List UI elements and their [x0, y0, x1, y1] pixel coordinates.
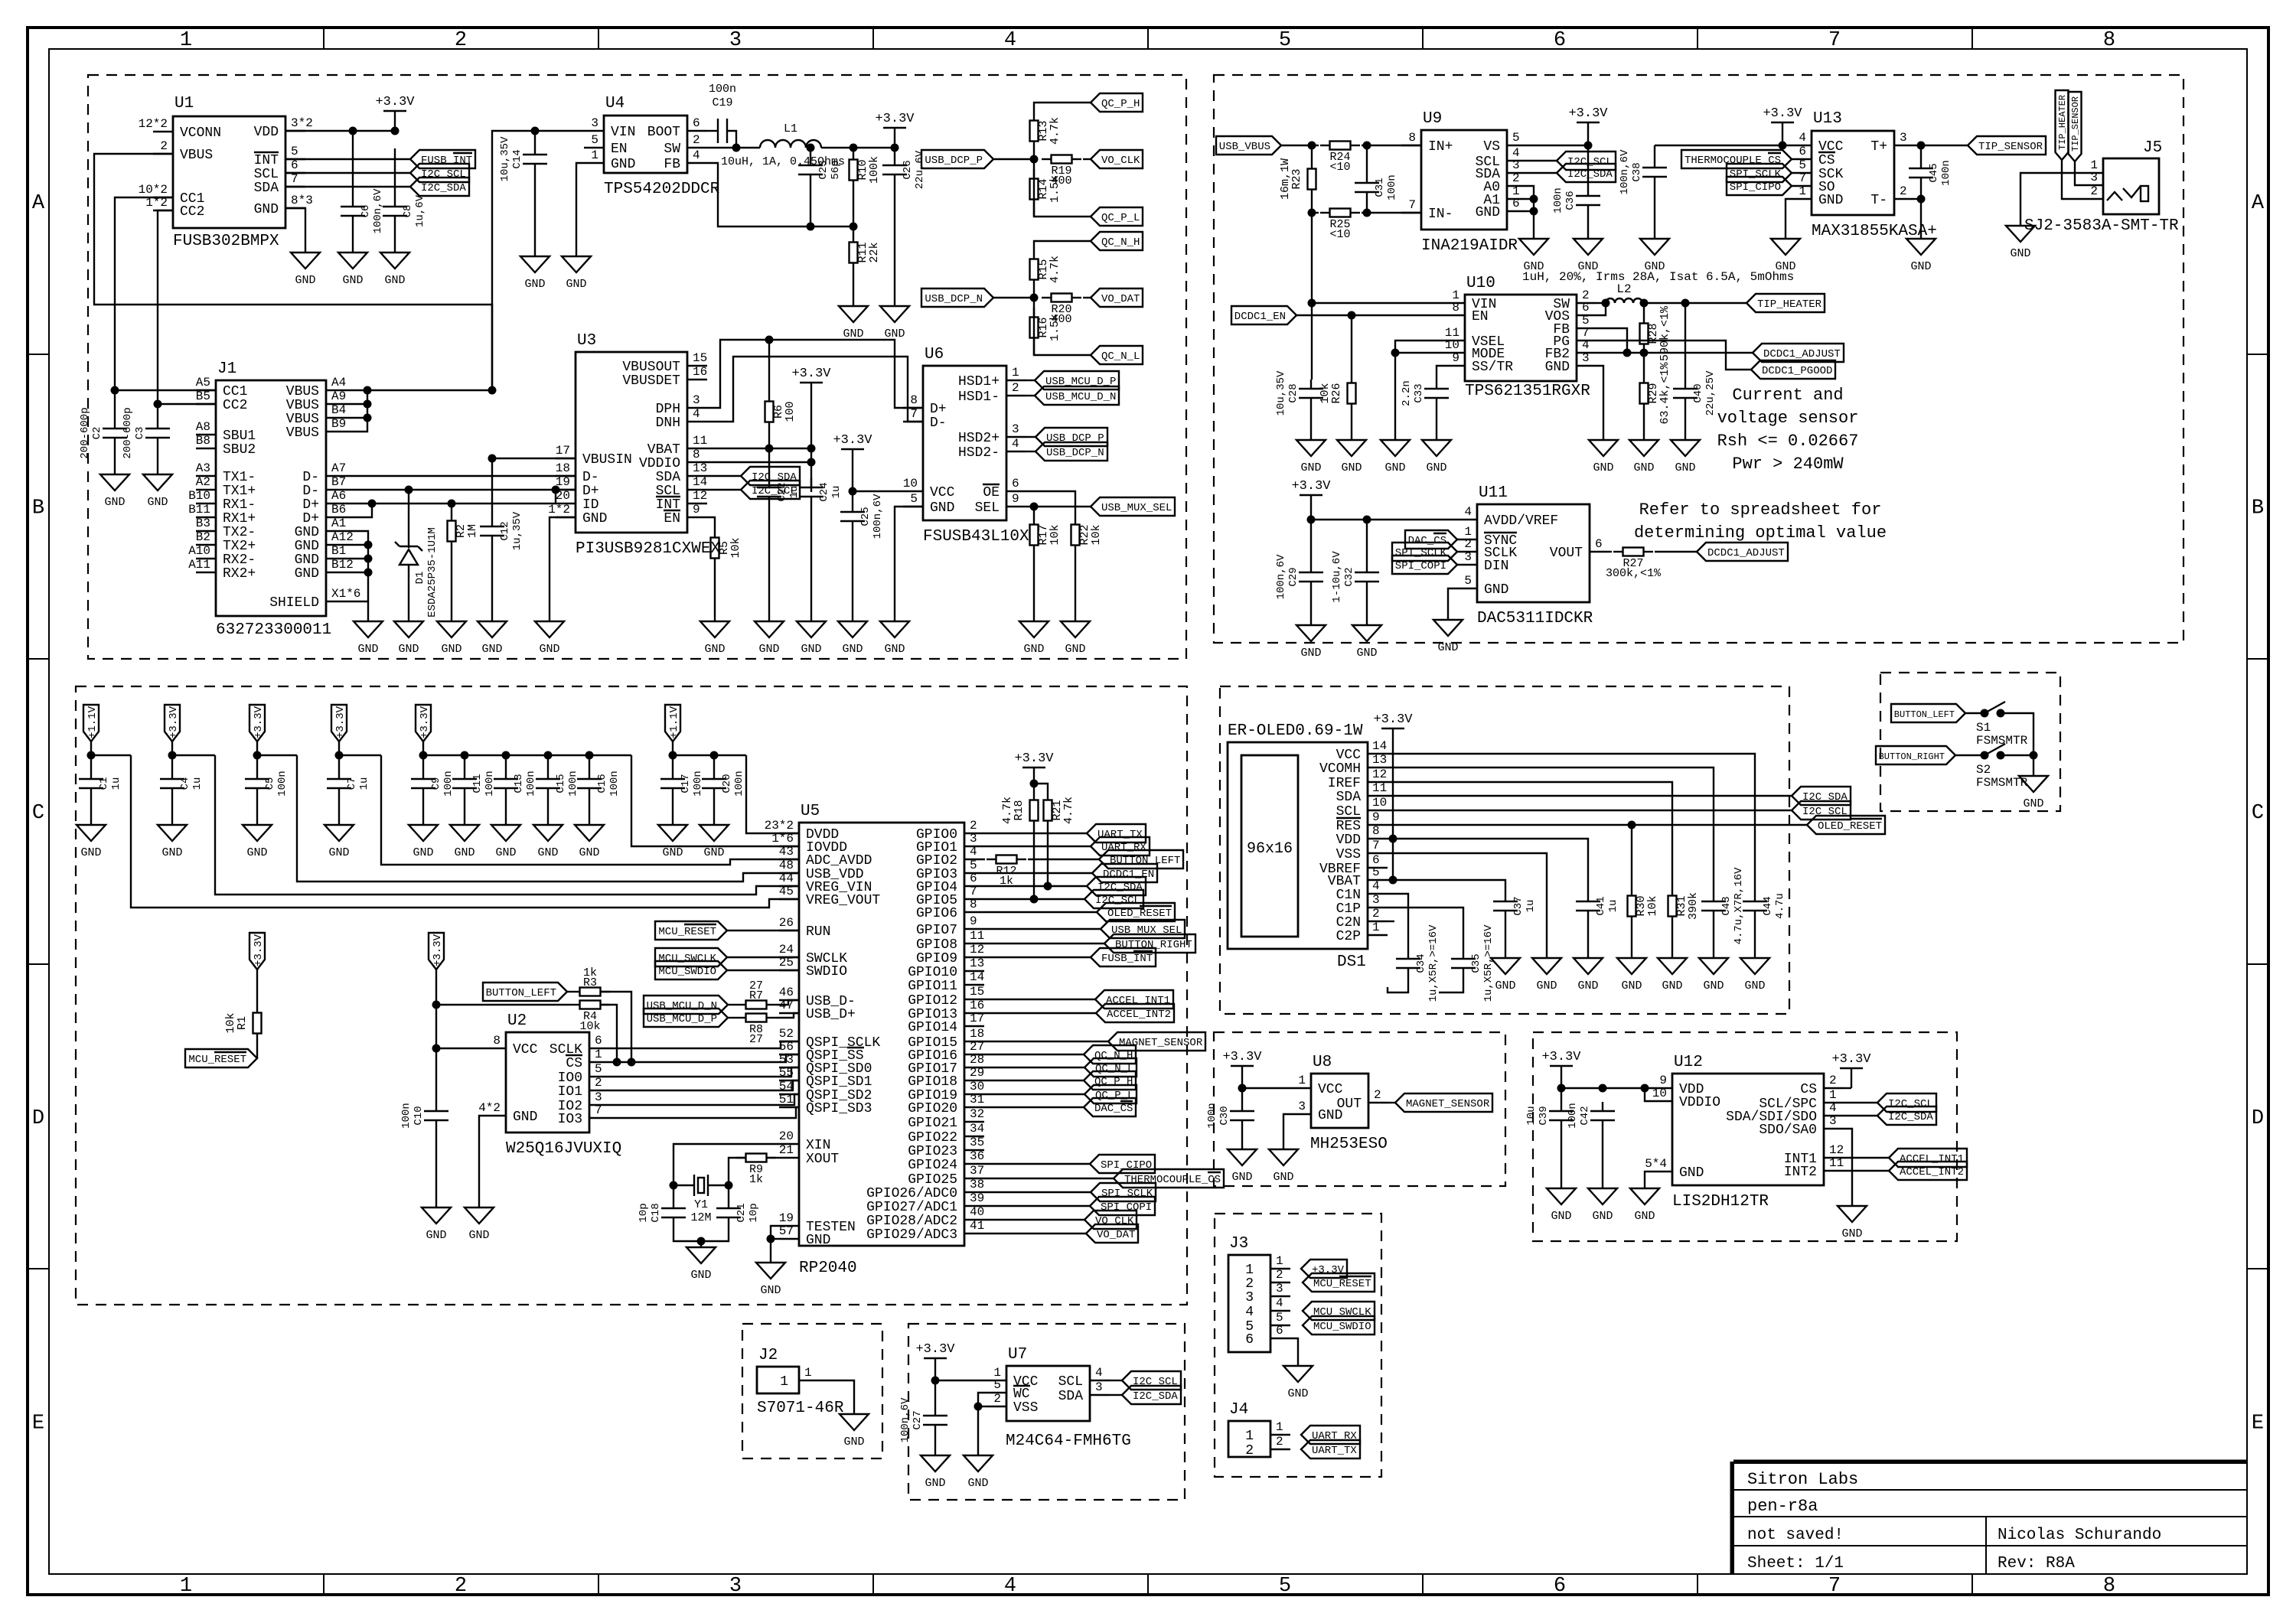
- svg-text:QSPI_SD1: QSPI_SD1: [806, 1074, 872, 1090]
- junction SW node: [732, 144, 741, 152]
- svg-text:I2C_SDA: I2C_SDA: [1888, 1111, 1933, 1123]
- wire U12 CS to +3.3V: [1844, 1087, 1851, 1089]
- svg-text:EN: EN: [664, 511, 680, 526]
- resistor R10 100k: [853, 148, 854, 150]
- power +3.3V at U9: [1587, 122, 1589, 145]
- svg-text:SCL: SCL: [1058, 1374, 1083, 1390]
- svg-text:D: D: [32, 1107, 44, 1130]
- svg-text:VO_DAT: VO_DAT: [1101, 293, 1140, 305]
- svg-text:SW: SW: [664, 142, 680, 157]
- wire U3 VDDIO: [707, 461, 811, 463]
- svg-text:QC_N_L: QC_N_L: [1101, 350, 1140, 363]
- svg-text:1u: 1u: [1525, 900, 1537, 913]
- svg-text:19: 19: [779, 1211, 794, 1225]
- svg-text:SDA: SDA: [254, 181, 279, 196]
- svg-text:3: 3: [1095, 1380, 1103, 1394]
- current sensor U9 INA219AIDR: [1421, 130, 1507, 230]
- ground under VSEL/MODE: [1381, 440, 1410, 456]
- svg-text:52: 52: [779, 1027, 794, 1041]
- svg-text:A12: A12: [331, 530, 354, 544]
- net tag SPI_COPI at U11: [1392, 556, 1457, 574]
- power flag +3.3V C5: [249, 705, 265, 741]
- svg-text:100n: 100n: [692, 771, 704, 797]
- net tag MCU_SWCLK at U5: [655, 948, 727, 966]
- svg-text:TX2+: TX2+: [223, 539, 256, 554]
- svg-text:45: 45: [779, 885, 794, 898]
- svg-text:2: 2: [970, 819, 977, 833]
- svg-text:1u,X5R,>=16V: 1u,X5R,>=16V: [1482, 924, 1495, 1002]
- svg-text:U1: U1: [174, 95, 194, 112]
- capacitor C40 22u,25V: [1684, 303, 1686, 380]
- resistor R19 400: [1042, 158, 1051, 160]
- title block: [1732, 1462, 2247, 1574]
- svg-text:+3.3V: +3.3V: [1763, 106, 1802, 121]
- wire +3.3V rail U2: [435, 1005, 437, 1102]
- svg-text:CS: CS: [1818, 153, 1835, 168]
- ground under U10: [1589, 440, 1618, 456]
- svg-text:AVDD/VREF: AVDD/VREF: [1484, 513, 1558, 529]
- power flag +3.3V C7: [331, 705, 347, 741]
- svg-text:1M: 1M: [466, 524, 479, 538]
- svg-text:L1: L1: [784, 122, 797, 135]
- svg-text:+3.3V: +3.3V: [419, 706, 431, 738]
- DS1 pin 7 VSS: [1368, 852, 1388, 854]
- svg-text:GPIO9: GPIO9: [916, 951, 957, 966]
- svg-text:3: 3: [1372, 893, 1380, 907]
- svg-text:6: 6: [1012, 477, 1019, 490]
- svg-text:+3.3V: +3.3V: [915, 1342, 955, 1357]
- svg-text:RES: RES: [1336, 819, 1361, 834]
- svg-text:D+: D+: [582, 484, 599, 499]
- svg-text:VS: VS: [1483, 139, 1500, 155]
- svg-text:1u,6V: 1u,6V: [414, 194, 426, 227]
- resistor R5 10k: [714, 528, 716, 537]
- ground under C27: [921, 1455, 950, 1471]
- svg-text:GPIO2: GPIO2: [916, 853, 957, 869]
- DS1 pin 2 C2N: [1368, 921, 1388, 922]
- svg-text:4.7u,X7R,16V: 4.7u,X7R,16V: [1733, 867, 1745, 944]
- svg-text:B: B: [2252, 497, 2264, 520]
- svg-text:9: 9: [1452, 351, 1459, 365]
- net tag QC_P_H at U5: [984, 1080, 1084, 1081]
- svg-text:3: 3: [595, 1090, 602, 1104]
- net tag SPI_COPI at U5: [984, 1205, 1090, 1207]
- svg-text:100n,6V: 100n,6V: [872, 494, 884, 539]
- svg-text:SPI_SCLK: SPI_SCLK: [1101, 1188, 1153, 1200]
- svg-text:8: 8: [910, 393, 918, 407]
- svg-text:I2C_SCL: I2C_SCL: [421, 168, 466, 181]
- wire L2 to TIP_HEATER: [1642, 302, 1746, 304]
- ground under C14: [520, 256, 550, 272]
- wire U11 GND: [1448, 588, 1457, 620]
- capacitor C6: [352, 131, 354, 197]
- svg-text:VBUS: VBUS: [286, 384, 319, 399]
- svg-text:10: 10: [903, 477, 918, 490]
- svg-text:5: 5: [1372, 865, 1380, 879]
- svg-text:GPIO20: GPIO20: [908, 1101, 957, 1116]
- svg-text:SPI_SCLK: SPI_SCLK: [1730, 168, 1782, 181]
- resistor R4 10k: [436, 1004, 570, 1005]
- capacitor C22 1u: [768, 448, 770, 478]
- svg-text:MCU_RESET: MCU_RESET: [658, 926, 716, 938]
- svg-text:4: 4: [1004, 1575, 1016, 1598]
- svg-text:2: 2: [1464, 537, 1472, 551]
- wire +3.3V to U2 VCC: [436, 1048, 486, 1049]
- wire U10 FB2 to DCDC1_ADJUST: [1596, 352, 1753, 354]
- wire U1 VDD to +3.3V: [285, 130, 395, 132]
- svg-text:C32: C32: [1343, 567, 1355, 586]
- ground under C4: [158, 825, 187, 841]
- svg-text:16: 16: [693, 365, 707, 379]
- svg-text:A11: A11: [188, 558, 210, 572]
- power bus to ADC_AVDD: [91, 754, 131, 756]
- svg-text:VBUS: VBUS: [286, 398, 319, 413]
- svg-text:HSD2-: HSD2-: [958, 445, 1000, 461]
- capacitor C24 1u: [810, 478, 812, 487]
- svg-text:+3.3V: +3.3V: [1291, 479, 1331, 494]
- svg-text:1u: 1u: [358, 777, 370, 790]
- svg-text:ESDA25P35-1U1M: ESDA25P35-1U1M: [426, 527, 439, 618]
- svg-text:IN+: IN+: [1428, 139, 1453, 155]
- svg-text:GND: GND: [843, 1436, 864, 1449]
- ground under U3: [535, 621, 564, 637]
- svg-text:A5: A5: [196, 376, 210, 389]
- svg-text:3: 3: [1012, 422, 1019, 436]
- svg-text:MCU_RESET: MCU_RESET: [1313, 1278, 1371, 1290]
- inductor L1: [760, 140, 821, 148]
- svg-text:C1P: C1P: [1336, 901, 1361, 917]
- svg-text:C25: C25: [859, 507, 872, 526]
- svg-text:7: 7: [970, 885, 977, 898]
- svg-text:1u: 1u: [1607, 900, 1619, 913]
- svg-text:15: 15: [693, 351, 707, 365]
- thermocouple converter U13 MAX31855KASA+: [1812, 131, 1894, 215]
- wire J2 pin1 to ground: [819, 1380, 854, 1414]
- wire U3 VBUSIN to VBUS rail: [492, 458, 576, 459]
- svg-text:DAC_CS: DAC_CS: [1408, 535, 1446, 547]
- svg-text:25: 25: [779, 956, 794, 970]
- svg-text:BUTTON_RIGHT: BUTTON_RIGHT: [1879, 751, 1945, 762]
- svg-text:RP2040: RP2040: [799, 1260, 857, 1277]
- svg-text:44: 44: [779, 872, 794, 885]
- svg-text:VDDIO: VDDIO: [1679, 1095, 1720, 1110]
- net tag I2C_SDA at DS1: [1388, 795, 1792, 797]
- net tag QC_P_H: [1091, 93, 1143, 112]
- svg-text:SWDIO: SWDIO: [806, 964, 847, 979]
- svg-text:GND: GND: [537, 846, 558, 859]
- power flag +3.3V C9 group: [416, 705, 431, 741]
- svg-text:1: 1: [1799, 184, 1806, 198]
- svg-text:VBUS: VBUS: [286, 425, 319, 441]
- svg-text:C28: C28: [1287, 383, 1300, 402]
- svg-text:2: 2: [993, 1392, 1001, 1406]
- ground under C39: [1547, 1188, 1576, 1204]
- svg-text:6: 6: [1595, 537, 1603, 551]
- svg-text:GND: GND: [843, 328, 863, 341]
- net tag I2C_SCL at U7: [1110, 1380, 1122, 1381]
- svg-text:GND: GND: [1484, 582, 1508, 598]
- svg-text:BOOT: BOOT: [647, 125, 680, 140]
- svg-text:C26: C26: [902, 160, 914, 179]
- svg-text:RUN: RUN: [806, 924, 830, 940]
- svg-text:HSD1+: HSD1+: [958, 374, 1000, 389]
- capacitor C27 100n,6V: [934, 1406, 936, 1416]
- power flag +3.3V at R1: [249, 933, 265, 970]
- svg-text:SDA: SDA: [656, 470, 681, 485]
- svg-text:CS: CS: [566, 1056, 582, 1071]
- svg-text:QC_P_H: QC_P_H: [1094, 1076, 1133, 1088]
- svg-text:2: 2: [1276, 1268, 1283, 1282]
- wire U5 TESTEN/GND to ground: [771, 1226, 779, 1263]
- svg-text:GND: GND: [1818, 193, 1843, 208]
- power +3.3V at buck output: [894, 128, 895, 148]
- svg-text:5: 5: [1512, 131, 1520, 145]
- DS1 pin 8 VDD: [1368, 838, 1388, 839]
- power bus +1.1V to DVDD: [746, 755, 799, 833]
- svg-text:TX1+: TX1+: [223, 484, 256, 499]
- svg-text:VIN: VIN: [611, 125, 635, 140]
- svg-text:GND: GND: [1536, 979, 1557, 992]
- svg-text:2.2n: 2.2n: [1401, 380, 1413, 406]
- resistor R17 10k: [1033, 507, 1035, 515]
- wire U10 SW to L2: [1596, 302, 1606, 304]
- svg-text:GND: GND: [147, 496, 168, 509]
- net tag I2C_SDA at U1: [285, 186, 410, 187]
- svg-text:GND: GND: [481, 643, 502, 656]
- svg-text:SPI_SCLK: SPI_SCLK: [1395, 547, 1447, 559]
- net tag QC_N_H: [1091, 232, 1143, 250]
- capacitor C38 100n,6V: [1654, 145, 1655, 158]
- ground under C40: [1671, 440, 1700, 456]
- svg-text:100n: 100n: [276, 771, 289, 797]
- svg-text:11: 11: [1372, 781, 1387, 795]
- svg-text:C: C: [32, 802, 44, 825]
- svg-text:14: 14: [970, 970, 984, 984]
- wire U7 WC/VSS to ground: [978, 1393, 987, 1406]
- svg-text:CC2: CC2: [180, 204, 204, 220]
- svg-text:GPIO23: GPIO23: [908, 1144, 957, 1159]
- MCU U5 RP2040: [799, 823, 964, 1246]
- svg-text:GND: GND: [1744, 979, 1765, 992]
- svg-text:C30: C30: [1218, 1106, 1231, 1125]
- svg-text:8: 8: [970, 898, 977, 911]
- net tag VO_CLK: [1091, 150, 1143, 168]
- ground under U4: [562, 256, 591, 272]
- svg-text:+3.3V: +3.3V: [253, 934, 265, 966]
- svg-text:TIP_HEATER: TIP_HEATER: [1757, 298, 1822, 311]
- svg-text:D+: D+: [930, 402, 947, 417]
- net tag I2C_SCL at DS1: [1388, 810, 1792, 811]
- ground under C6: [338, 253, 367, 269]
- svg-text:47: 47: [779, 999, 794, 1012]
- net tag I2C_SCL at U9: [1527, 160, 1557, 161]
- svg-text:96x16: 96x16: [1247, 840, 1293, 858]
- svg-text:SDA: SDA: [1058, 1389, 1084, 1404]
- ground under U2: [465, 1207, 494, 1224]
- svg-text:3: 3: [1276, 1282, 1283, 1295]
- net tag SPI_SCLK at U11: [1392, 543, 1457, 561]
- svg-text:2: 2: [595, 1076, 602, 1090]
- buck converter U10 TPS621351RGXR: [1465, 295, 1577, 381]
- svg-text:5: 5: [910, 492, 918, 506]
- svg-text:GND: GND: [704, 643, 725, 656]
- svg-text:B4: B4: [331, 403, 346, 417]
- wire J1 D- B7 to U3 pin 19: [346, 489, 576, 490]
- ground under C44: [1740, 958, 1769, 974]
- svg-text:10k: 10k: [579, 1020, 600, 1033]
- ground under C2: [100, 474, 129, 490]
- switch S2 FSMSMTR: [1955, 754, 1985, 756]
- resistor R21 4.7k: [1034, 784, 1048, 790]
- power +3.3V at U13: [1782, 122, 1783, 145]
- net tag SPI_SCLK at U13: [1727, 164, 1792, 182]
- capacitor C37 1u: [1505, 892, 1506, 901]
- svg-text:D-: D-: [582, 470, 599, 485]
- svg-text:TX2-: TX2-: [223, 525, 256, 540]
- net tag QC_P_L at U5: [984, 1093, 1084, 1095]
- ground under U1: [291, 253, 320, 269]
- svg-text:+3.3V: +3.3V: [375, 95, 415, 109]
- svg-text:GND: GND: [662, 846, 683, 859]
- wire R4 to QSPI_SS net: [601, 1005, 617, 1062]
- net tag BUTTON_LEFT at R3: [483, 983, 567, 1001]
- net tag ACCEL_INT2 at U5: [984, 1012, 1096, 1014]
- wire U10 FB to divider: [1596, 328, 1627, 353]
- wire J5 pin1 to ground: [2020, 173, 2083, 226]
- svg-text:BUTTON_LEFT: BUTTON_LEFT: [1894, 709, 1955, 720]
- svg-text:U9: U9: [1423, 110, 1442, 128]
- ground under switches: [2019, 776, 2048, 792]
- svg-text:C35: C35: [1470, 953, 1482, 973]
- svg-text:1u: 1u: [788, 486, 801, 499]
- wire U10 PG to DCDC1_PGOOD: [1596, 341, 1751, 370]
- svg-text:C19: C19: [712, 96, 732, 109]
- svg-text:USB_MUX_SEL: USB_MUX_SEL: [1101, 502, 1172, 514]
- net tag QC_N_H at U5: [984, 1054, 1084, 1055]
- svg-text:ACCEL_INT2: ACCEL_INT2: [1900, 1166, 1964, 1178]
- svg-text:8: 8: [1408, 131, 1416, 145]
- power +3.3V at U6: [852, 469, 853, 491]
- svg-text:39: 39: [970, 1191, 984, 1205]
- wire J1 D+ B6: [346, 504, 372, 517]
- wire USB_VBUS to shunt node: [1281, 145, 1312, 146]
- svg-text:W25Q16JVUXIQ: W25Q16JVUXIQ: [506, 1140, 621, 1158]
- wire U10 VOS to SW node: [1596, 303, 1606, 315]
- svg-text:C21: C21: [735, 1203, 748, 1222]
- svg-text:12M: 12M: [690, 1211, 711, 1224]
- svg-text:GPIO12: GPIO12: [908, 993, 957, 1009]
- svg-text:1: 1: [1245, 1429, 1254, 1444]
- svg-text:1: 1: [595, 1048, 602, 1061]
- svg-text:+1.1V: +1.1V: [86, 706, 99, 738]
- svg-text:VBUSOUT: VBUSOUT: [622, 360, 680, 375]
- svg-text:B1: B1: [331, 544, 346, 558]
- svg-text:4: 4: [1276, 1296, 1283, 1310]
- resistor R15 4.7k: [1033, 249, 1035, 259]
- svg-text:13: 13: [693, 461, 707, 475]
- net tag I2C_SCL at U1: [285, 172, 410, 174]
- net tag DAC_CS: [1405, 530, 1457, 549]
- svg-text:ACCEL_INT1: ACCEL_INT1: [1106, 995, 1170, 1007]
- ground under J3: [1283, 1366, 1313, 1382]
- svg-text:GND: GND: [539, 643, 559, 656]
- ground under U5: [756, 1263, 785, 1279]
- capacitor C34 1u,X5R,>=16V: [1388, 894, 1408, 950]
- wire +3.3V to U7 VCC: [935, 1380, 987, 1381]
- net tag USB_DCP_P input: [921, 150, 993, 168]
- ground under C45: [1906, 239, 1936, 255]
- net tag USB_MUX_SEL at U5: [984, 928, 1101, 930]
- capacitor C5: [256, 755, 258, 770]
- svg-text:C13: C13: [513, 774, 525, 793]
- wire QC_P_H to R13: [1034, 103, 1091, 111]
- svg-text:LIS2DH12TR: LIS2DH12TR: [1672, 1193, 1769, 1211]
- svg-text:A10: A10: [188, 544, 210, 558]
- DS1 pin 6 VBREF: [1368, 867, 1388, 869]
- svg-text:20: 20: [779, 1129, 794, 1143]
- svg-text:R7: R7: [749, 989, 763, 1002]
- svg-text:I2C_SDA: I2C_SDA: [1567, 168, 1613, 181]
- net tag BUTTON_RIGHT at U5: [984, 943, 1104, 944]
- resistor R6 100: [768, 340, 770, 392]
- svg-text:C39: C39: [1538, 1106, 1550, 1125]
- resistor R11 22k: [853, 227, 854, 233]
- svg-text:GPIO18: GPIO18: [908, 1074, 957, 1090]
- svg-text:DAC5311IDCKR: DAC5311IDCKR: [1477, 610, 1593, 627]
- group box current sensor / heater supply: [1214, 75, 2183, 643]
- svg-text:6: 6: [1554, 29, 1566, 52]
- svg-text:FUSB_INT: FUSB_INT: [421, 155, 472, 167]
- net tag UART_TX: [984, 833, 1087, 834]
- svg-text:C34: C34: [1415, 953, 1427, 973]
- EEPROM U7 M24C64-FMH6TG: [1006, 1366, 1090, 1421]
- wire U12 GND: [1645, 1172, 1652, 1188]
- svg-text:C1N: C1N: [1336, 888, 1361, 903]
- ground under C42: [1588, 1188, 1617, 1204]
- svg-text:6: 6: [693, 116, 700, 130]
- svg-text:UART_RX: UART_RX: [1101, 842, 1146, 854]
- svg-text:38: 38: [970, 1178, 984, 1191]
- svg-text:40: 40: [970, 1205, 984, 1219]
- svg-text:J4: J4: [1229, 1401, 1248, 1419]
- svg-text:100n: 100n: [1386, 174, 1398, 200]
- svg-text:2: 2: [1245, 1276, 1254, 1292]
- svg-text:QC_P_L: QC_P_L: [1101, 212, 1140, 224]
- svg-text:6: 6: [1276, 1324, 1283, 1338]
- wire U12 SDO/SA0 to ground: [1844, 1129, 1852, 1206]
- svg-text:<10: <10: [1329, 228, 1350, 241]
- svg-text:SPI_CIPO: SPI_CIPO: [1730, 181, 1781, 194]
- ground under C3: [143, 474, 172, 490]
- svg-text:1: 1: [591, 148, 598, 162]
- wire U6 GND: [895, 507, 923, 621]
- svg-text:3: 3: [693, 393, 700, 407]
- svg-text:37: 37: [970, 1164, 984, 1178]
- net tag MCU_RESET at U5: [655, 921, 727, 940]
- svg-text:Pwr > 240mW: Pwr > 240mW: [1732, 455, 1844, 474]
- net tag I2C_SCL at U12: [1844, 1102, 1877, 1103]
- power +3.3V at U11: [1310, 494, 1312, 496]
- svg-text:C11: C11: [471, 774, 484, 793]
- svg-text:GND: GND: [1300, 647, 1321, 660]
- svg-text:C12: C12: [499, 521, 511, 540]
- svg-text:QC_N_H: QC_N_H: [1101, 236, 1140, 249]
- svg-text:GND: GND: [842, 643, 863, 656]
- net tag DCDC1_PGOOD: [1751, 360, 1835, 379]
- svg-text:R23: R23: [1290, 168, 1303, 189]
- svg-text:C36: C36: [1564, 191, 1577, 210]
- svg-text:GND: GND: [1384, 461, 1405, 474]
